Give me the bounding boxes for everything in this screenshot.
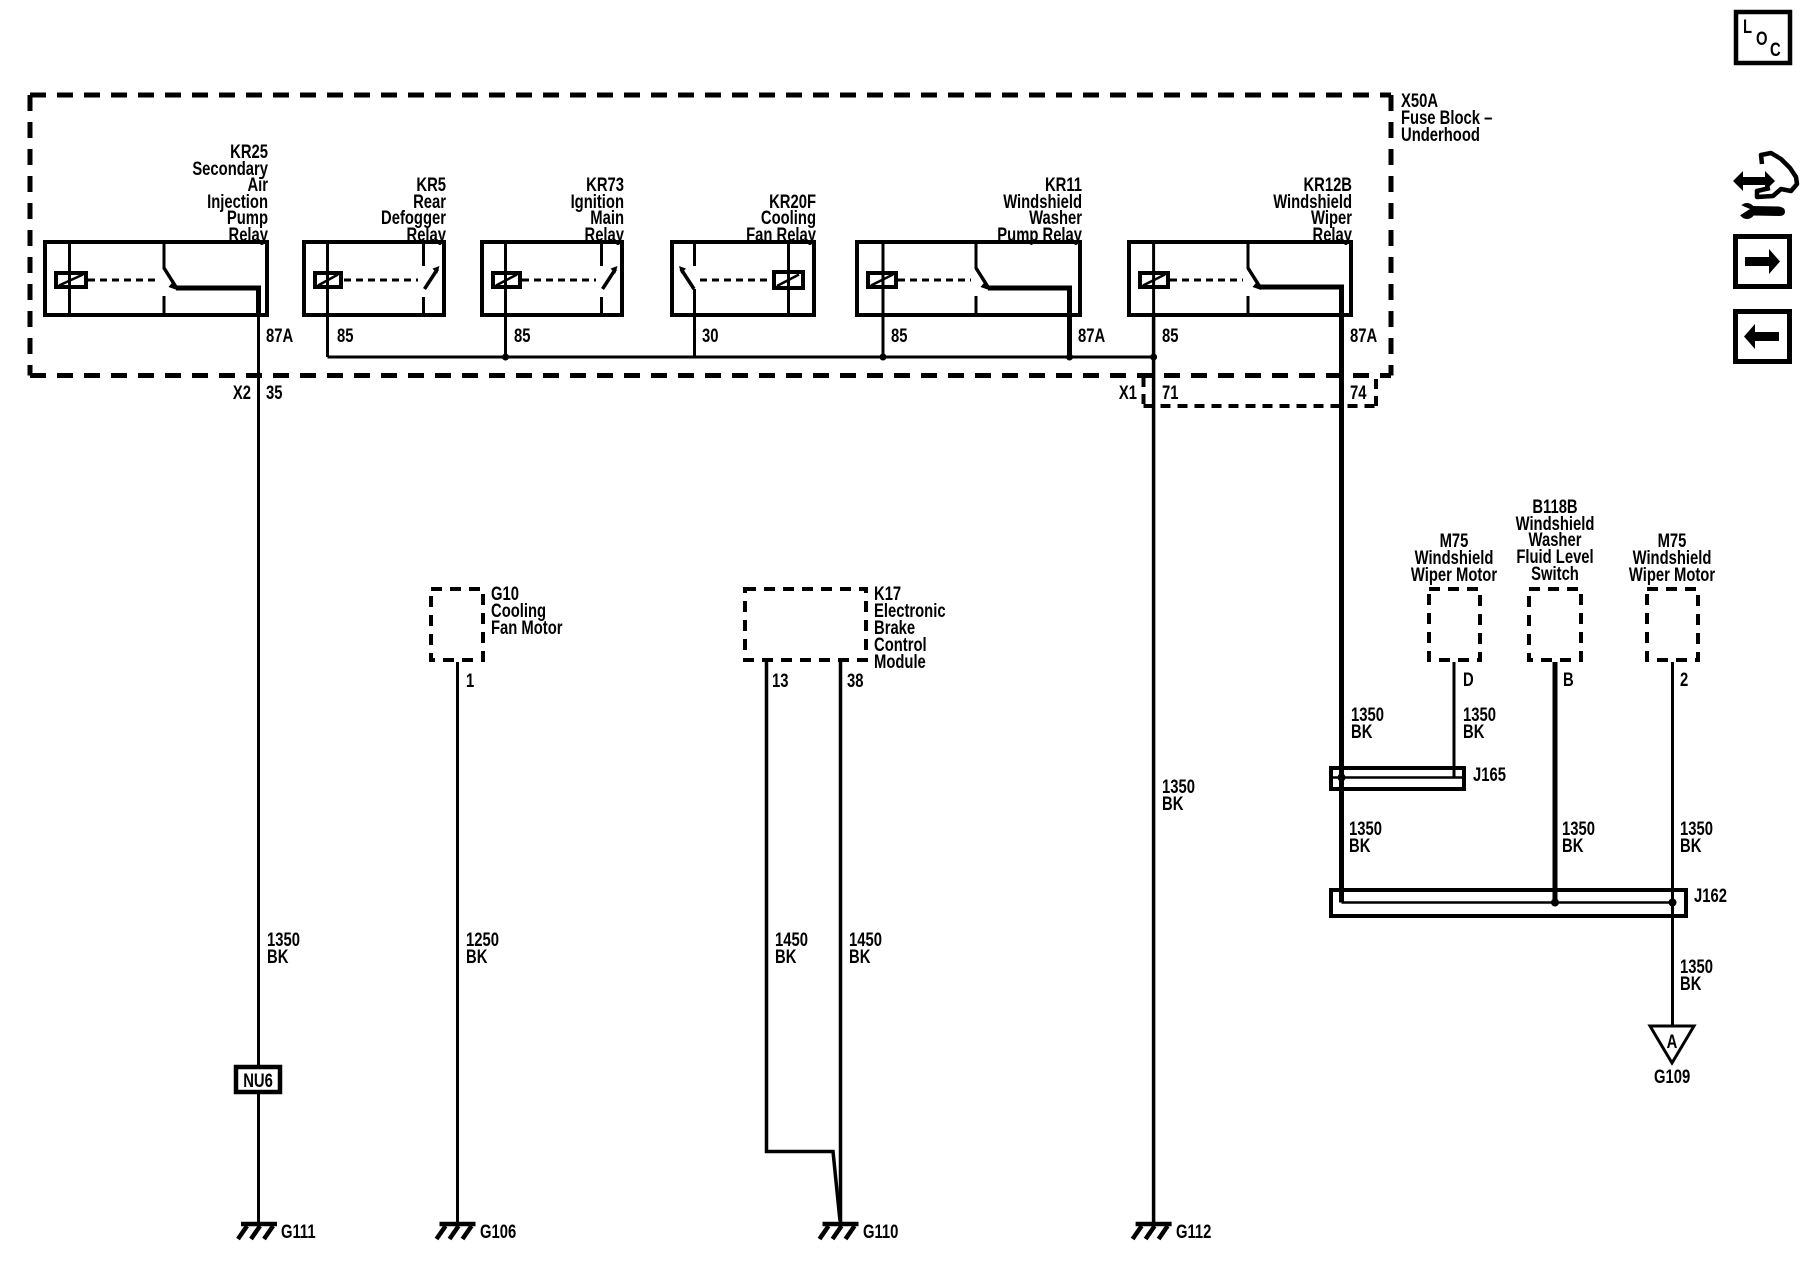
svg-text:G110: G110 xyxy=(863,1221,898,1242)
svg-text:C: C xyxy=(1770,39,1781,60)
fuse block X50A dashed border xyxy=(30,95,1391,376)
svg-text:85: 85 xyxy=(891,325,907,346)
ground G112 xyxy=(1133,1224,1172,1239)
relay KR12B label xyxy=(1273,174,1352,245)
svg-text:X1: X1 xyxy=(1119,382,1137,403)
wrench icon xyxy=(1739,203,1755,219)
junction dot KR11 87A/bus xyxy=(1066,354,1073,361)
svg-text:L: L xyxy=(1743,16,1752,37)
svg-text:X2: X2 xyxy=(233,382,251,403)
junction dot KR73/bus xyxy=(502,354,509,361)
svg-text:71: 71 xyxy=(1162,382,1178,403)
wire KR73 85 to bus xyxy=(504,315,507,357)
G10 label xyxy=(491,583,563,638)
relay KR20F label xyxy=(746,191,816,245)
forward arrow icon box xyxy=(1736,237,1790,287)
component NU6 xyxy=(236,1067,280,1092)
component M75 Windshield Wiper Motor (left) dashed box xyxy=(1429,589,1480,660)
junction dot J162 B wire xyxy=(1551,899,1559,907)
svg-text:BK: BK xyxy=(1463,721,1485,742)
navigation double-arrow icon xyxy=(1733,171,1775,191)
svg-text:D: D xyxy=(1463,669,1474,690)
M75 left label xyxy=(1411,530,1498,585)
splice J162 xyxy=(1331,890,1686,916)
svg-text:Relay: Relay xyxy=(229,224,269,245)
bus wire (85/30 common) xyxy=(328,356,1154,359)
LOC icon box xyxy=(1736,12,1790,63)
svg-text:Relay: Relay xyxy=(1313,224,1353,245)
svg-text:BK: BK xyxy=(1680,973,1702,994)
svg-text:13: 13 xyxy=(772,670,788,691)
component M75 Windshield Wiper Motor (right) dashed box xyxy=(1647,589,1698,660)
svg-text:G111: G111 xyxy=(281,1221,316,1242)
relay KR20F xyxy=(672,242,814,315)
ground G111 xyxy=(238,1224,277,1239)
svg-text:G112: G112 xyxy=(1176,1221,1211,1242)
wire K17 pin 38 to G110 xyxy=(839,662,843,1222)
connector X1 dashed box xyxy=(1144,377,1377,406)
svg-text:30: 30 xyxy=(702,325,718,346)
svg-text:BK: BK xyxy=(1349,835,1371,856)
relay KR5 label xyxy=(381,174,446,245)
relay KR5 xyxy=(304,242,444,315)
wire J162 to G109 xyxy=(1671,903,1674,1027)
svg-text:Wiper Motor: Wiper Motor xyxy=(1411,564,1498,585)
svg-text:Pump Relay: Pump Relay xyxy=(997,224,1082,245)
wire KR11 85 to bus xyxy=(882,315,885,357)
ground G110 xyxy=(820,1224,859,1239)
component K17 Electronic Brake Control Module dashed box xyxy=(745,589,866,660)
svg-text:38: 38 xyxy=(847,670,863,691)
relay KR25 label xyxy=(192,141,268,245)
relay KR73 xyxy=(482,242,622,315)
navigation outline shape xyxy=(1757,153,1797,197)
svg-text:85: 85 xyxy=(1162,325,1178,346)
svg-text:87A: 87A xyxy=(266,325,293,346)
svg-text:A: A xyxy=(1667,1031,1678,1052)
component B118B Windshield Washer Fluid Level Switch dashed box xyxy=(1529,589,1581,660)
junction dot KR12B 85/bus xyxy=(1150,354,1157,361)
svg-text:2: 2 xyxy=(1680,669,1688,690)
svg-text:Wiper Motor: Wiper Motor xyxy=(1629,564,1716,585)
svg-text:BK: BK xyxy=(849,946,871,967)
svg-text:G109: G109 xyxy=(1654,1066,1690,1087)
junction dot J162 pin 2 wire xyxy=(1669,899,1677,907)
ground G109 triangle xyxy=(1650,1026,1694,1063)
wire KR25 87A to G111 xyxy=(257,316,260,1222)
relay KR25 xyxy=(45,242,267,316)
svg-text:J165: J165 xyxy=(1473,764,1506,785)
back arrow icon box xyxy=(1736,312,1790,362)
svg-text:85: 85 xyxy=(514,325,530,346)
svg-text:BK: BK xyxy=(775,946,797,967)
svg-text:Fan Relay: Fan Relay xyxy=(746,224,816,245)
svg-text:BK: BK xyxy=(466,946,488,967)
svg-text:Fan Motor: Fan Motor xyxy=(491,617,563,638)
svg-text:J162: J162 xyxy=(1694,885,1727,906)
svg-text:74: 74 xyxy=(1350,382,1367,403)
wire K17 pin 13 xyxy=(767,662,841,1221)
component G10 Cooling Fan Motor dashed box xyxy=(431,589,483,660)
relay KR73 label xyxy=(571,174,625,245)
svg-text:BK: BK xyxy=(1562,835,1584,856)
relay KR11 xyxy=(857,242,1080,357)
svg-text:B: B xyxy=(1563,669,1574,690)
B118B label xyxy=(1516,496,1595,584)
svg-text:NU6: NU6 xyxy=(243,1070,273,1091)
svg-text:85: 85 xyxy=(337,325,353,346)
svg-text:87A: 87A xyxy=(1350,325,1377,346)
fuse block label X50A Fuse Block - Underhood xyxy=(1401,90,1492,145)
svg-text:35: 35 xyxy=(266,382,282,403)
wire KR5 85 to bus xyxy=(326,315,329,357)
relay KR12B xyxy=(1129,242,1351,903)
svg-text:BK: BK xyxy=(1162,793,1184,814)
svg-text:Relay: Relay xyxy=(585,224,625,245)
svg-text:BK: BK xyxy=(1351,721,1373,742)
svg-text:Underhood: Underhood xyxy=(1401,124,1480,145)
svg-text:G106: G106 xyxy=(480,1221,516,1242)
wire M75 pin 2 to J162 xyxy=(1671,662,1674,903)
svg-text:O: O xyxy=(1756,28,1768,49)
junction dot J165 xyxy=(1338,774,1346,782)
relay KR11 label xyxy=(997,174,1082,245)
wire M75 pin D to J165 xyxy=(1453,662,1456,778)
junction dot KR11 85/bus xyxy=(880,354,887,361)
svg-text:Module: Module xyxy=(874,651,926,672)
wire G10 pin 1 to G106 xyxy=(456,662,459,1222)
svg-text:1: 1 xyxy=(466,670,474,691)
svg-text:BK: BK xyxy=(1680,835,1702,856)
ground G106 xyxy=(437,1224,476,1239)
splice J165 xyxy=(1331,768,1464,789)
svg-text:87A: 87A xyxy=(1078,325,1105,346)
wire KR12B 85 / X1-71 to G112 xyxy=(1152,315,1156,1222)
wire KR20F 30 to bus xyxy=(693,315,696,357)
wire B118B pin B to J162 xyxy=(1553,662,1558,903)
M75 right label xyxy=(1629,530,1716,585)
svg-text:Relay: Relay xyxy=(407,224,447,245)
svg-text:Switch: Switch xyxy=(1531,563,1579,584)
svg-text:BK: BK xyxy=(267,946,289,967)
K17 label xyxy=(874,583,946,672)
